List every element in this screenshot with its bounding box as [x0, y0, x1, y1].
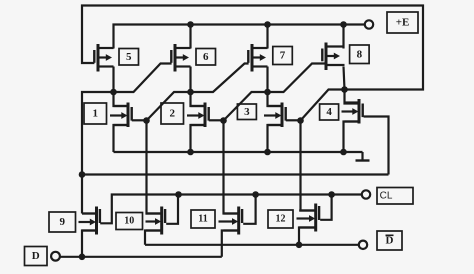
label box 10 (VT10) [116, 213, 143, 230]
label box 11 (VT11) [191, 210, 215, 228]
wire: node A4 to VT3 gate (diagonal) [301, 90, 345, 121]
transistor VT5 (upper load, stage 1) [94, 44, 113, 72]
wire: VT3 gate lead [286, 119, 301, 121]
junction: +E rail / VT8 drain [340, 21, 347, 28]
junction: CL rail / VT11 gate [252, 191, 259, 198]
wire: node A4 column (VT8 source - VT4 drain) [344, 67, 360, 104]
transistor VT8 (upper load, stage 4) [322, 43, 344, 71]
ground [356, 152, 370, 161]
wire: D-bar rail [145, 244, 359, 246]
junction: node A2 [187, 89, 194, 96]
wire: node A1 to VT6 gate (diagonal) [114, 64, 172, 93]
transistor VT12 (transfer gate) [297, 204, 320, 232]
wire: VT2 source to ground rail [191, 125, 206, 152]
label: D-bar output [377, 231, 402, 250]
label: +E supply [387, 12, 418, 33]
terminal: +E supply [365, 20, 373, 28]
svg-text:D: D [386, 235, 394, 247]
junction: rail B / left vertical [79, 171, 86, 178]
label box 7 (VT7) [273, 47, 293, 65]
wire: VT8 drain to +E rail [342, 25, 344, 49]
svg-text:+E: +E [396, 17, 410, 29]
wire: VT1 gate lead [132, 119, 147, 121]
wire: VT2 gate lead [209, 119, 224, 121]
junction: ground rail / VT4 source [340, 149, 347, 156]
junction: VT2 gate node [220, 117, 227, 124]
svg-text:CL: CL [380, 190, 393, 201]
junction: +E rail / VT7 drain [264, 21, 271, 28]
junction: node A1 [110, 89, 117, 96]
transistor VT2 (driver, stage 2) [187, 103, 209, 128]
wire: node A3 column (VT7 source - VT3 drain) [268, 67, 283, 107]
wire: VT12 gate riser to CL rail [320, 195, 331, 220]
label box 2 (VT2) [161, 103, 184, 124]
label box 12 (VT12) [268, 210, 293, 228]
svg-text:4: 4 [326, 106, 332, 118]
wire: VT11 source to D wire [222, 231, 239, 257]
wire: VT3 gate node to VT12 drain [301, 121, 316, 211]
junction: VT3 gate node [297, 117, 304, 124]
svg-text:11: 11 [198, 214, 207, 225]
wire: node A1 column (VT5 source - VT1 drain) [114, 67, 129, 107]
transistor VT4 (driver, stage 4) [342, 99, 363, 124]
wire: outer feedback loop top/right (node F: stage-4 output to VT5 gate) [82, 6, 423, 90]
label box 9 (VT9) [49, 212, 76, 232]
junction: D-bar rail / VT12 source [296, 242, 303, 249]
label: D input [25, 247, 48, 266]
wire: D input wire [59, 256, 222, 258]
wire: VT10 gate riser to CL rail [166, 195, 178, 224]
wire: +E supply rail [114, 25, 365, 49]
junction: node A4 [341, 86, 348, 93]
label: CL clock [377, 188, 413, 205]
wire: VT10 source to D-bar rail [145, 231, 162, 245]
wire: node A2 to VT7 gate (diagonal) [191, 64, 249, 93]
label box 4 (VT4) [320, 104, 339, 120]
wire: VT9 drain stub [82, 212, 97, 214]
svg-text:7: 7 [280, 50, 286, 62]
junction: node A3 [264, 89, 271, 96]
junction: CL rail / VT10 gate [175, 191, 182, 198]
wire: VT9 source to D input wire [82, 231, 97, 257]
wire: VT1 source to ground rail [114, 125, 129, 152]
wire: VT4 gate lead via right loop to rail B [364, 117, 389, 175]
junction: +E rail / VT6 drain [187, 21, 194, 28]
label box 1 (VT1) [84, 103, 107, 124]
svg-text:9: 9 [60, 216, 66, 228]
transistor VT1 (driver, stage 1) [110, 103, 132, 128]
terminal: D-bar output [359, 241, 367, 249]
wire: VT3 source to ground rail [268, 125, 283, 152]
junction: D wire / VT9 source [79, 253, 86, 260]
svg-text:D: D [32, 250, 40, 262]
label box 8 (VT8) [350, 45, 370, 64]
wire: VT2 gate node to VT11 drain [224, 121, 239, 214]
wire: node A3 to VT2 gate (diagonal) [224, 92, 268, 121]
wire: rail B (VT9 drain / VT4 gate) [82, 173, 389, 175]
wire: node A3 to VT8 gate (diagonal) [268, 64, 326, 93]
svg-text:1: 1 [93, 108, 99, 120]
label box 5 (VT5) [119, 49, 139, 66]
label box 3 (VT3) [237, 104, 256, 120]
svg-text:6: 6 [203, 51, 209, 63]
terminal: CL clock [362, 190, 370, 198]
wire: node A1 to left vertical (VT9 drain column) [82, 92, 114, 214]
transistor VT9 (transfer gate, D input) [79, 207, 100, 235]
junction: VT1 gate node [143, 117, 150, 124]
terminal: D input [51, 252, 60, 261]
junction: CL rail / VT12 gate [328, 191, 335, 198]
wire: VT11 gate riser to CL rail [243, 195, 255, 224]
wire: ground rail [114, 151, 363, 153]
junction: ground rail / VT2 source [187, 149, 194, 156]
svg-text:8: 8 [357, 48, 363, 60]
wire: VT9 gate to CL rail [100, 195, 361, 224]
svg-text:5: 5 [126, 51, 132, 63]
transistor VT10 (transfer gate) [146, 207, 166, 235]
wire: node A2 column (VT6 source - VT2 drain) [191, 67, 206, 107]
transistor VT6 (upper load, stage 2) [171, 44, 190, 72]
wire: VT6 drain to +E rail [189, 25, 191, 49]
transistor VT7 (upper load, stage 3) [248, 44, 267, 72]
wire: VT4 source to ground rail [344, 122, 360, 153]
svg-text:3: 3 [244, 106, 250, 118]
label box 6 (VT6) [196, 49, 216, 66]
wire: VT12 source to D-bar rail [299, 228, 316, 245]
svg-text:2: 2 [170, 108, 176, 120]
svg-text:12: 12 [276, 214, 286, 225]
wire: VT7 drain to +E rail [266, 25, 268, 49]
wire: node A2 to VT1 gate (diagonal) [147, 92, 191, 121]
junction: ground rail / VT3 source [264, 149, 271, 156]
transistor VT11 (transfer gate) [219, 207, 243, 235]
wire: VT1 gate node to VT10 drain [147, 121, 162, 214]
svg-text:10: 10 [124, 216, 134, 227]
transistor VT3 (driver, stage 3) [264, 103, 286, 128]
